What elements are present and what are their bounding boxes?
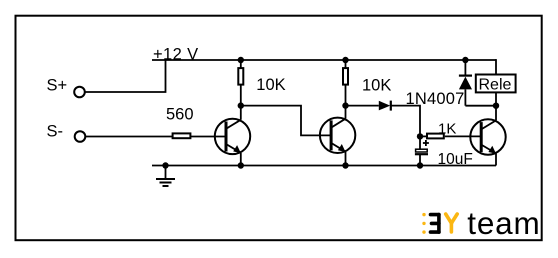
- junction Q1 collector node: [238, 102, 244, 108]
- wire S+ to +12V rail: [85, 60, 166, 92]
- junction Q2 collector node: [342, 102, 348, 108]
- svg-text:Rele: Rele: [479, 77, 512, 94]
- wire Q1 collector to Q2 base: [241, 106, 331, 136]
- junction Q3 collector node: [493, 103, 499, 109]
- junction rail / R3: [342, 57, 348, 63]
- resistor R1 10K: [238, 60, 243, 106]
- junction C1 / ground rail: [417, 162, 423, 168]
- wire Q2 collector to D1: [346, 105, 379, 107]
- ground rail: [152, 165, 496, 167]
- wire rail to relay coil: [495, 59, 497, 74]
- wire R2 to Q1 base: [191, 136, 227, 138]
- wire S- to R2: [85, 136, 172, 138]
- junction node R4/C1: [417, 133, 423, 139]
- resistor R2 560: [173, 133, 191, 138]
- resistor R3 10K: [343, 60, 348, 106]
- diode D2 flyback: [459, 60, 496, 106]
- terminal S-: [75, 131, 86, 142]
- logo 3Y team: [422, 205, 540, 241]
- svg-text:S+: S+: [47, 77, 68, 95]
- ground: [156, 166, 175, 187]
- wire R4 to Q3 base: [445, 135, 481, 137]
- transistor Q3: [470, 106, 505, 166]
- svg-text:10uF: 10uF: [438, 151, 473, 168]
- svg-text:+12 V: +12 V: [153, 46, 199, 64]
- junction Q2 emitter / ground rail: [342, 162, 348, 168]
- svg-text:S-: S-: [47, 123, 64, 141]
- svg-text:10K: 10K: [362, 77, 391, 95]
- capacitor C1 10uF: [415, 136, 429, 165]
- svg-text:1K: 1K: [438, 121, 456, 138]
- +12V rail: [152, 59, 496, 61]
- wire D1 to node C1: [391, 106, 420, 137]
- transistor Q2: [320, 106, 355, 166]
- transistor Q1: [215, 106, 250, 166]
- terminal S+: [74, 87, 85, 98]
- resistor R4 1K: [420, 134, 444, 139]
- junction rail / flyback diode: [462, 57, 468, 63]
- junction Q1 emitter / ground rail: [238, 162, 244, 168]
- svg-text:10K: 10K: [256, 76, 285, 94]
- relay K1: [476, 75, 516, 93]
- wire relay to Q3 collector node: [495, 92, 497, 105]
- junction ground tap: [162, 162, 168, 168]
- svg-text:560: 560: [166, 106, 194, 124]
- diode D1 1N4007: [379, 101, 391, 111]
- junction rail / R1: [238, 57, 244, 63]
- svg-text:team: team: [467, 205, 540, 241]
